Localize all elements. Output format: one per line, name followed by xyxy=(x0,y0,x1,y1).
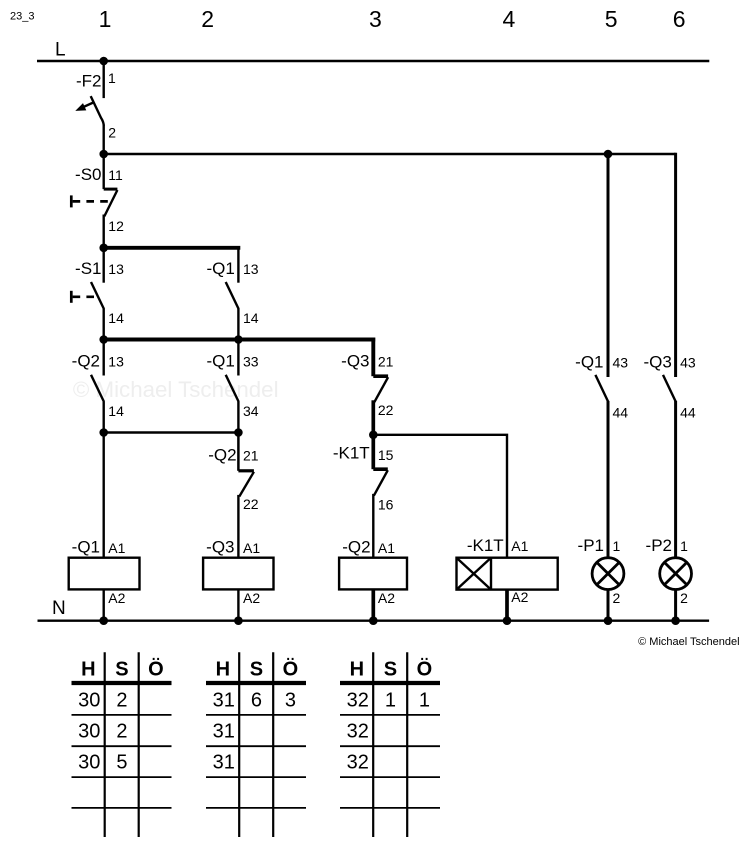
svg-text:23_3: 23_3 xyxy=(10,11,34,23)
junction row D2 column 3 xyxy=(369,431,378,440)
coil Q2 xyxy=(339,558,407,590)
svg-text:H: H xyxy=(216,658,230,680)
svg-text:H: H xyxy=(81,658,95,680)
junction N column 6 xyxy=(671,616,680,625)
svg-text:-Q1: -Q1 xyxy=(206,352,234,371)
svg-text:Ö: Ö xyxy=(417,657,433,680)
wire coil Q3 to N xyxy=(237,589,239,620)
svg-text:3: 3 xyxy=(369,6,382,32)
svg-text:© Michael Tschendel: © Michael Tschendel xyxy=(638,636,739,648)
junction row D1 column 1 xyxy=(99,428,108,437)
coil Q1 xyxy=(69,558,140,590)
svg-text:2: 2 xyxy=(613,590,621,606)
svg-text:A2: A2 xyxy=(243,590,260,606)
svg-text:Ö: Ö xyxy=(283,657,299,680)
junction row C column 1 xyxy=(99,335,108,344)
svg-text:H: H xyxy=(350,658,364,680)
wire coil Q2 to N (thick) xyxy=(371,589,375,620)
svg-text:-Q3: -Q3 xyxy=(341,352,369,371)
wire column 5 from row A xyxy=(607,154,610,377)
wire row D1 column 1 to column 2 xyxy=(104,431,239,433)
svg-text:-F2: -F2 xyxy=(76,72,102,91)
contact Q3 43/44 (NO) xyxy=(663,375,676,558)
svg-text:-P1: -P1 xyxy=(578,536,604,555)
svg-text:-S1: -S1 xyxy=(75,259,101,278)
svg-text:S: S xyxy=(115,658,128,680)
svg-text:-Q2: -Q2 xyxy=(72,352,100,371)
pushbutton S1 (NO) xyxy=(71,248,104,340)
svg-text:2: 2 xyxy=(116,720,127,742)
contact K1T 15/16 (NC, thick top) xyxy=(373,435,388,558)
svg-text:1: 1 xyxy=(385,690,396,712)
svg-text:44: 44 xyxy=(613,405,629,421)
contact table 3 xyxy=(340,652,440,837)
svg-text:N: N xyxy=(52,598,66,619)
svg-text:4: 4 xyxy=(503,6,516,32)
svg-text:32: 32 xyxy=(347,751,369,773)
svg-text:1: 1 xyxy=(613,538,621,554)
svg-text:12: 12 xyxy=(108,218,124,234)
svg-text:14: 14 xyxy=(108,310,124,326)
svg-text:31: 31 xyxy=(213,751,235,773)
svg-text:6: 6 xyxy=(673,6,686,32)
junction row B column 1 xyxy=(99,244,108,253)
svg-text:A1: A1 xyxy=(108,540,125,556)
svg-text:15: 15 xyxy=(378,447,394,463)
svg-text:A2: A2 xyxy=(378,590,395,606)
svg-text:30: 30 xyxy=(78,720,100,742)
svg-text:Ö: Ö xyxy=(148,657,164,680)
svg-text:© Michael Tschendel: © Michael Tschendel xyxy=(73,377,279,402)
contact Q3 21/22 (NC, thick pins) xyxy=(373,338,388,435)
junction N column 1 xyxy=(99,616,108,625)
contact Q1 33/34 (NO) xyxy=(226,340,239,433)
junction row A column 5 xyxy=(604,150,613,159)
svg-text:16: 16 xyxy=(378,496,394,512)
svg-text:A1: A1 xyxy=(243,540,260,556)
svg-text:14: 14 xyxy=(243,310,259,326)
svg-text:6: 6 xyxy=(251,690,262,712)
lamp P1 xyxy=(592,558,624,590)
svg-text:S: S xyxy=(384,658,397,680)
svg-text:14: 14 xyxy=(108,403,124,419)
svg-text:33: 33 xyxy=(243,354,259,370)
breaker F2 xyxy=(75,61,103,154)
timer coil K1T xyxy=(457,558,558,590)
svg-text:30: 30 xyxy=(78,690,100,712)
svg-text:34: 34 xyxy=(243,403,259,419)
svg-text:32: 32 xyxy=(347,720,369,742)
junction on L rail at column 1 xyxy=(99,57,108,66)
svg-text:-Q1: -Q1 xyxy=(72,538,100,557)
wire row A from F2 to column 6 xyxy=(104,153,676,155)
contact Q2 21/22 (NC) xyxy=(238,433,254,558)
wire N rail xyxy=(38,620,710,622)
svg-text:22: 22 xyxy=(378,402,394,418)
svg-text:5: 5 xyxy=(116,751,127,773)
svg-text:A1: A1 xyxy=(378,540,395,556)
svg-text:32: 32 xyxy=(347,690,369,712)
svg-text:31: 31 xyxy=(213,690,235,712)
wire L rail xyxy=(37,60,709,62)
wire column 1 down to coil Q1 xyxy=(102,433,104,558)
wire coil Q1 to N xyxy=(102,589,104,620)
svg-text:31: 31 xyxy=(213,720,235,742)
svg-text:-Q2: -Q2 xyxy=(342,538,370,557)
pushbutton S0 (NC) xyxy=(71,154,117,248)
wire coil K1T to N (thick) xyxy=(505,590,509,621)
svg-text:2: 2 xyxy=(201,6,214,32)
junction N column 3 xyxy=(369,616,378,625)
svg-text:13: 13 xyxy=(243,261,259,277)
svg-text:43: 43 xyxy=(613,355,629,371)
svg-text:1: 1 xyxy=(99,6,112,32)
svg-text:13: 13 xyxy=(108,261,124,277)
svg-text:2: 2 xyxy=(116,690,127,712)
junction row D1 column 2 xyxy=(234,428,243,437)
svg-text:30: 30 xyxy=(78,751,100,773)
svg-text:11: 11 xyxy=(108,167,123,183)
svg-text:5: 5 xyxy=(605,6,618,32)
contact table 1 xyxy=(72,652,172,837)
svg-text:A2: A2 xyxy=(511,589,528,605)
svg-text:-K1T: -K1T xyxy=(467,536,504,555)
svg-text:44: 44 xyxy=(680,405,696,421)
svg-text:-S0: -S0 xyxy=(75,165,101,184)
svg-text:21: 21 xyxy=(378,354,394,370)
svg-text:3: 3 xyxy=(285,690,296,712)
svg-text:1: 1 xyxy=(108,70,116,86)
wire row B (thick) column 1 to column 2 xyxy=(104,246,241,250)
svg-text:S: S xyxy=(250,658,263,680)
svg-text:-Q1: -Q1 xyxy=(206,259,234,278)
coil Q3 xyxy=(203,558,273,590)
svg-text:22: 22 xyxy=(243,496,259,512)
wire lamp P2 to N (thick) xyxy=(674,590,677,621)
wire row C (thick) column 1 to column 3 xyxy=(104,338,376,342)
svg-text:-Q3: -Q3 xyxy=(206,538,234,557)
junction row A column 1 xyxy=(99,150,108,159)
junction N column 5 xyxy=(604,616,613,625)
wire row D2 column 3 to column 4 xyxy=(373,435,507,558)
svg-text:-K1T: -K1T xyxy=(333,444,370,463)
contact Q1 13/14 (NO) xyxy=(226,246,239,340)
svg-text:-P2: -P2 xyxy=(646,536,672,555)
contact table 2 xyxy=(206,652,306,837)
svg-text:-Q3: -Q3 xyxy=(643,353,671,372)
contact Q2 13/14 (NO) xyxy=(91,340,104,433)
junction row C column 2 xyxy=(234,335,243,344)
contact Q1 43/44 (NO) xyxy=(595,375,608,558)
wire column 6 from row A xyxy=(674,153,677,377)
svg-text:-Q2: -Q2 xyxy=(208,446,236,465)
svg-text:A2: A2 xyxy=(108,590,125,606)
svg-text:43: 43 xyxy=(680,355,696,371)
wire lamp P1 to N (thick) xyxy=(607,590,610,621)
svg-text:2: 2 xyxy=(680,590,688,606)
junction N column 4 xyxy=(503,616,512,625)
svg-text:1: 1 xyxy=(680,538,688,554)
svg-text:13: 13 xyxy=(108,354,124,370)
svg-text:-Q1: -Q1 xyxy=(575,353,603,372)
lamp P2 xyxy=(660,558,692,590)
junction N column 2 xyxy=(234,616,243,625)
svg-text:21: 21 xyxy=(243,448,259,464)
svg-text:L: L xyxy=(55,40,66,61)
svg-text:1: 1 xyxy=(419,690,430,712)
svg-text:A1: A1 xyxy=(511,538,528,554)
svg-text:2: 2 xyxy=(108,124,116,140)
